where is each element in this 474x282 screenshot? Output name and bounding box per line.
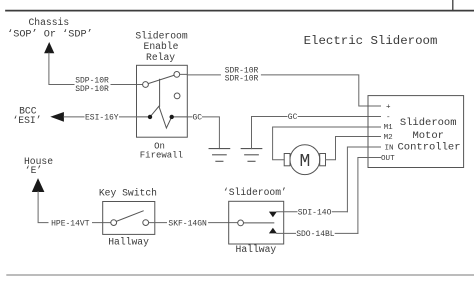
svg-text:Slideroom: Slideroom [400, 117, 457, 129]
relay K1 location label [140, 141, 183, 160]
wire SDO (switch to controller OUT) [277, 232, 358, 234]
motor M1 'Slideroom' body [290, 145, 320, 175]
svg-text:Relay: Relay [146, 52, 175, 63]
key switch S1 blade [116, 211, 143, 222]
svg-text:GC: GC [288, 113, 298, 122]
border top rule [6, 10, 474, 12]
svg-text:SDR-10R: SDR-10R [225, 74, 259, 83]
relay K1 NO contact pin [174, 93, 180, 99]
slideroom switch S2 common pin [238, 220, 244, 226]
motor controller U1 name [397, 117, 460, 154]
relay K1 body [137, 65, 188, 137]
svg-text:Firewall: Firewall [140, 151, 183, 161]
ground G2 [241, 149, 262, 162]
svg-text:Key Switch: Key Switch [99, 187, 157, 198]
wire motor right to controller M2 pin [326, 137, 381, 160]
slideroom switch S2 common lever [244, 222, 274, 224]
wire SKF (key switch to slideroom switch) [149, 222, 238, 224]
relay K1 armature link [159, 79, 161, 106]
slideroom switch S2 OUT contact arrow [269, 228, 277, 234]
ground G1 [209, 149, 230, 162]
wire ESI (relay coil to BCC) [64, 116, 137, 118]
relay K1 Slideroom Enable Relay : name label [135, 30, 188, 63]
relay K1 coil [137, 106, 188, 128]
svg-text:‘ESI’: ‘ESI’ [12, 115, 41, 126]
slideroom switch S2 body [229, 201, 284, 244]
wire GC (relay coil to ground) [187, 117, 219, 149]
svg-text:GC: GC [192, 113, 202, 122]
label SDR-10R (x2) [225, 67, 259, 84]
motor M1 left brush terminal [284, 154, 290, 166]
svg-text:M: M [299, 152, 310, 172]
node BCC 'ESI' [12, 106, 63, 126]
svg-text:M2: M2 [384, 134, 394, 142]
relay K1 NC contact pin [174, 72, 180, 78]
svg-text:‘SOP’ Or ‘SDP’: ‘SOP’ Or ‘SDP’ [7, 28, 93, 40]
border top tick [452, 0, 454, 11]
wire motor left to controller M1 pin [273, 127, 381, 160]
border bottom rule [7, 274, 474, 276]
svg-text:Electric Slideroom: Electric Slideroom [304, 34, 438, 48]
svg-text:SDO-14BL: SDO-14BL [296, 230, 335, 239]
wire SDR (relay NC contact to controller plus) [180, 74, 381, 106]
svg-text:Slideroom: Slideroom [135, 30, 188, 41]
svg-text:‘Slideroom’: ‘Slideroom’ [223, 187, 287, 198]
svg-text:Enable: Enable [144, 41, 179, 52]
key switch S1 body [103, 202, 155, 235]
relay K1 switch blade [148, 75, 174, 83]
svg-text:‘E’: ‘E’ [25, 165, 42, 176]
node Chassis 'SOP' Or 'SDP' [7, 17, 93, 53]
motor M1 right brush terminal [320, 154, 326, 166]
relay K1 coil terminal dot right [170, 115, 174, 119]
wire OUT pin to SDO vertical [358, 158, 381, 234]
svg-text:Controller: Controller [397, 142, 460, 154]
svg-text:SDI-14O: SDI-14O [298, 208, 332, 217]
slideroom switch S2 IN contact arrow [269, 212, 277, 218]
node House 'E' [24, 156, 53, 192]
svg-text:IN: IN [385, 145, 394, 153]
relay K1 common contact pin [143, 82, 149, 88]
wire SDI (switch to controller IN) [277, 211, 348, 213]
svg-text:+: + [386, 104, 391, 112]
svg-text:SDP-10R: SDP-10R [75, 85, 109, 94]
label SDP-10R (x2) [75, 77, 109, 95]
svg-text:-: - [386, 114, 391, 122]
svg-text:ESI-16Y: ESI-16Y [85, 114, 119, 123]
wire HPE (house feed to key switch) [38, 192, 111, 223]
wire SDP (chassis feed to relay common) [49, 53, 143, 85]
svg-text:OUT: OUT [381, 155, 395, 163]
relay K1 coil terminal dot left [148, 115, 152, 119]
key switch S1 left pin [111, 220, 117, 226]
wire GC (ground to controller minus pin) [252, 117, 381, 149]
svg-text:Hallway: Hallway [236, 244, 277, 255]
svg-text:HPE-14VT: HPE-14VT [51, 219, 90, 228]
svg-text:M1: M1 [384, 124, 394, 132]
motor controller U1 body [368, 96, 464, 168]
svg-text:Chassis: Chassis [28, 17, 69, 28]
svg-text:Hallway: Hallway [108, 237, 149, 248]
key switch S1 right pin [143, 220, 149, 226]
svg-text:Motor: Motor [412, 130, 444, 142]
wire IN pin to SDI vertical [347, 147, 380, 212]
svg-text:SKF-14GN: SKF-14GN [168, 219, 207, 228]
